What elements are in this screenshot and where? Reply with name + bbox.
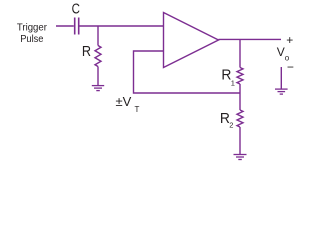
svg-text:C: C — [72, 1, 80, 18]
svg-text:2: 2 — [229, 121, 233, 130]
svg-text:V: V — [277, 45, 285, 59]
svg-text:Trigger: Trigger — [17, 22, 48, 33]
svg-text:1: 1 — [231, 79, 235, 88]
svg-text:−: − — [287, 60, 294, 74]
svg-text:±V: ±V — [116, 94, 132, 109]
svg-text:Pulse: Pulse — [20, 34, 44, 45]
svg-text:T: T — [135, 105, 140, 114]
svg-text:R: R — [82, 43, 91, 60]
svg-text:+: + — [286, 33, 293, 47]
